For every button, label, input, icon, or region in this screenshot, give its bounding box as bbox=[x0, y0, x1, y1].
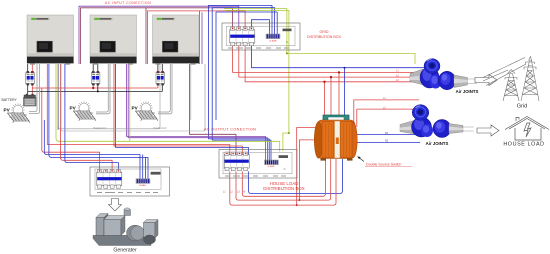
svg-text:HOUSE LOAD: HOUSE LOAD bbox=[503, 142, 544, 148]
svg-text:PV: PV bbox=[4, 108, 11, 113]
annotation arrow to switch bbox=[358, 157, 365, 162]
breaker CB3 (battery inverter 3) bbox=[156, 71, 165, 85]
svg-text:N-BAR: N-BAR bbox=[268, 165, 275, 168]
svg-text:Air JOINTS: Air JOINTS bbox=[456, 89, 479, 94]
house load distribution box bbox=[219, 150, 297, 179]
node switch left red 1 bbox=[296, 204, 298, 206]
generator box 4-pole breaker bbox=[97, 170, 122, 189]
wire AC input maroon U2 to grid box pole1 bbox=[81, 8, 233, 64]
wire gray stub U3 bbox=[190, 64, 192, 120]
wire green earth bus U1 to house box bbox=[56, 64, 280, 152]
svg-text:DISTRIBUTION BOX: DISTRIBUTION BOX bbox=[263, 186, 305, 191]
wire L1 branch down to switch bbox=[338, 72, 340, 122]
wire labels L1 L2 L3 grid to air joints bbox=[223, 70, 399, 194]
wire L3 branch down to switch bbox=[324, 82, 326, 122]
grid distribution box bbox=[222, 23, 300, 50]
wire PV3 gray pair bbox=[158, 64, 172, 114]
node L3 bbox=[323, 81, 325, 83]
grid towers bbox=[483, 57, 539, 102]
PV array 1 bbox=[8, 103, 30, 123]
wire PV1 gray pair bbox=[29, 64, 40, 114]
wire house box pole2 red loop to switch bottom bbox=[236, 159, 331, 200]
wire battery red breaker1 bbox=[31, 64, 33, 94]
node green junction bbox=[286, 52, 288, 54]
svg-text:Generater: Generater bbox=[113, 248, 137, 254]
grid box name plate bbox=[283, 29, 292, 32]
wire L2 branch down to switch bbox=[330, 77, 332, 122]
node L1 bbox=[338, 71, 340, 73]
wire switch right L2 to air joints 2 bbox=[357, 109, 419, 127]
house box 4-pole breaker bbox=[224, 152, 249, 171]
generator box name plate bbox=[151, 172, 161, 175]
wire generator blue 1 to strip bbox=[44, 120, 140, 179]
svg-text:AC INPUT CONECTION: AC INPUT CONECTION bbox=[105, 1, 151, 5]
svg-text:Parallel kit 2: Parallel kit 2 bbox=[153, 127, 167, 130]
arrow to house load bbox=[477, 125, 499, 136]
wire breaker2 tops bbox=[93, 64, 98, 71]
wire parallel kit loop 2 bbox=[61, 64, 205, 131]
wire blue neutral riser tail to house strip 3 bbox=[208, 139, 269, 160]
wire AC out red U1 to house box pole1 bbox=[47, 64, 230, 155]
svg-text:N: N bbox=[286, 41, 288, 44]
wire purple stub U1 bbox=[57, 64, 59, 130]
PV array 2 bbox=[74, 101, 96, 121]
wire generator blue 2 to strip bbox=[49, 64, 148, 179]
wire generator red 2 bbox=[61, 64, 113, 170]
svg-text:Parallel kit 1: Parallel kit 1 bbox=[93, 127, 107, 130]
house load icon bbox=[505, 117, 549, 141]
generator box terminal strip bbox=[136, 179, 150, 184]
node N bbox=[344, 67, 346, 69]
wire AC input stub purple 2 right of U3 bbox=[201, 12, 203, 64]
wire blue grid breaker pole4 loop to strip bbox=[251, 20, 269, 35]
battery bbox=[24, 94, 37, 106]
wire breaker3 tops bbox=[158, 64, 162, 71]
double source switch bbox=[314, 115, 357, 161]
wire switch right L1 to air joints 2 bbox=[354, 100, 419, 124]
wire green earth stub U2 bbox=[129, 64, 131, 141]
generator bbox=[93, 208, 158, 246]
house box terminal strip bbox=[264, 160, 278, 165]
breaker CB1 (battery inverter 1) bbox=[26, 71, 35, 85]
wire blue neutral riser 2 tail to house strip 4 bbox=[212, 140, 271, 160]
wire generator red 1 bbox=[42, 88, 100, 170]
svg-text:PV: PV bbox=[132, 106, 139, 111]
node battery black bbox=[97, 90, 99, 92]
wire L2 grid box to air joints 1 bbox=[239, 46, 418, 77]
wire blue neutral riser 2 bbox=[212, 8, 274, 141]
wire green earth 2 down to house box bbox=[226, 10, 289, 151]
wire L3 grid box to air joints 1 bbox=[245, 46, 414, 82]
svg-text:PV: PV bbox=[70, 106, 77, 111]
svg-text:Double Source Switch: Double Source Switch bbox=[366, 162, 401, 166]
wire battery red bus bbox=[32, 85, 158, 88]
wire AC out dark red U3 to house box pole2 bbox=[189, 64, 236, 155]
svg-text:N-BAR: N-BAR bbox=[139, 184, 146, 187]
air joints set 1 bbox=[410, 59, 477, 90]
wire L1 grid box to air joints 1 bbox=[233, 46, 418, 73]
svg-text:GRID: GRID bbox=[320, 30, 329, 34]
wire house box pole4 blue loop to switch bottom bbox=[249, 159, 343, 194]
svg-text:HOUSE LOAD: HOUSE LOAD bbox=[270, 181, 299, 186]
PV array 3 bbox=[136, 101, 158, 121]
wire switch left red 2 drop bbox=[299, 140, 316, 200]
wire AC out purple U2 to house strip 1 bbox=[127, 64, 266, 160]
node battery red bbox=[92, 87, 94, 89]
grid box 4-pole breaker bbox=[230, 27, 255, 46]
wire generator blue strip drops bbox=[143, 155, 146, 180]
svg-text:N-BAR: N-BAR bbox=[270, 39, 277, 42]
wire switch right N2 blue to air joints 2 bbox=[357, 141, 420, 143]
wire switch right N1 blue to air joints 2 bbox=[357, 134, 420, 136]
svg-text:N: N bbox=[244, 190, 246, 193]
wire house box pole1 red loop to switch bottom bbox=[230, 159, 336, 205]
node L2 bbox=[330, 76, 332, 78]
wire battery black bus bbox=[28, 85, 163, 91]
generator distribution box bbox=[90, 167, 170, 196]
inverter U1 bbox=[27, 15, 74, 65]
svg-text:DISTRIBUTION BOX: DISTRIBUTION BOX bbox=[307, 35, 342, 39]
svg-text:Grid: Grid bbox=[517, 104, 528, 110]
inverter U2 bbox=[90, 15, 137, 65]
wire parallel kit loop 1 bbox=[59, 64, 161, 129]
wire blue neutral stub 3 bbox=[216, 12, 277, 120]
wire switch left red 1 drop bbox=[297, 128, 317, 206]
wire N branch down to switch bbox=[344, 68, 346, 122]
wire AC out purple U2 to house strip 2 bbox=[128, 64, 267, 160]
wire AC input red to grid box pole3 bbox=[148, 11, 246, 64]
air joints set 2 bbox=[400, 105, 474, 138]
wire AC input stub purple right of U3 bbox=[199, 11, 201, 64]
wire blue neutral riser to grid terminal strip and house strip bbox=[208, 5, 272, 139]
wire N blue grid box to air joints 1 bbox=[251, 46, 440, 68]
wire AC out red U2 to house box pole3 bbox=[114, 64, 242, 155]
svg-text:AC OUTPUT CONECTION: AC OUTPUT CONECTION bbox=[204, 128, 256, 132]
arrow below generator box bbox=[109, 199, 122, 212]
node switch left red 2 bbox=[298, 199, 300, 201]
wire PV2 gray pair bbox=[96, 64, 110, 114]
grid box terminal strip bbox=[266, 34, 280, 39]
wire AC input purple U2 to grid box pole2 bbox=[79, 6, 239, 64]
wire battery black breaker1 bbox=[27, 64, 29, 94]
wire house box pole3 red loop to switch bottom bbox=[242, 159, 325, 196]
house box name plate bbox=[279, 155, 288, 158]
svg-text:BATTERY: BATTERY bbox=[2, 98, 18, 102]
svg-text:Air JOINTS: Air JOINTS bbox=[426, 141, 449, 146]
wire AC out blue U2 to house box pole4 bbox=[116, 64, 249, 155]
wire green earth down through grid box to air joint 1 bbox=[224, 9, 415, 64]
arrow to grid bbox=[475, 75, 497, 86]
wire AC input stub maroon between U2 U3 bbox=[145, 8, 147, 64]
svg-text:N: N bbox=[284, 168, 286, 171]
inverter U3 bbox=[153, 15, 200, 65]
node green house junction bbox=[288, 132, 290, 134]
breaker CB2 (battery inverter 2) bbox=[91, 71, 100, 85]
wire generator blue pole4 bbox=[65, 64, 119, 170]
